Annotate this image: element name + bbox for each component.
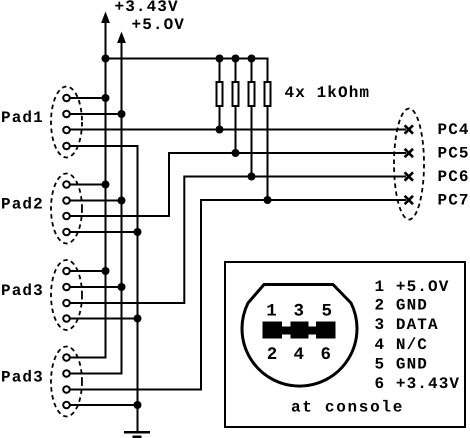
svg-text:3: 3 — [294, 302, 305, 322]
svg-text:3 DATA: 3 DATA — [375, 316, 439, 334]
svg-text:Pad3: Pad3 — [1, 369, 44, 387]
svg-text:PC6: PC6 — [438, 168, 470, 186]
svg-text:Pad3: Pad3 — [1, 282, 44, 300]
svg-text:6: 6 — [321, 345, 332, 365]
svg-text:PC7: PC7 — [438, 192, 470, 210]
svg-text:Pad2: Pad2 — [1, 196, 44, 214]
svg-text:4: 4 — [294, 345, 305, 365]
svg-text:PC5: PC5 — [438, 145, 470, 163]
svg-text:Pad1: Pad1 — [1, 109, 44, 127]
svg-text:+3.43V: +3.43V — [115, 0, 179, 16]
svg-text:2 GND: 2 GND — [375, 297, 429, 315]
svg-text:1: 1 — [266, 302, 277, 322]
svg-text:2: 2 — [267, 345, 278, 365]
svg-text:at console: at console — [291, 399, 404, 417]
svg-text:5 GND: 5 GND — [375, 356, 429, 374]
svg-text:1 +5.OV: 1 +5.OV — [375, 278, 450, 296]
svg-text:+5.OV: +5.OV — [132, 16, 186, 34]
svg-text:6 +3.43V: 6 +3.43V — [375, 375, 461, 393]
svg-text:4 N/C: 4 N/C — [375, 336, 429, 354]
svg-text:4x 1kOhm: 4x 1kOhm — [285, 84, 371, 102]
svg-text:PC4: PC4 — [438, 121, 470, 139]
svg-text:5: 5 — [322, 302, 333, 322]
